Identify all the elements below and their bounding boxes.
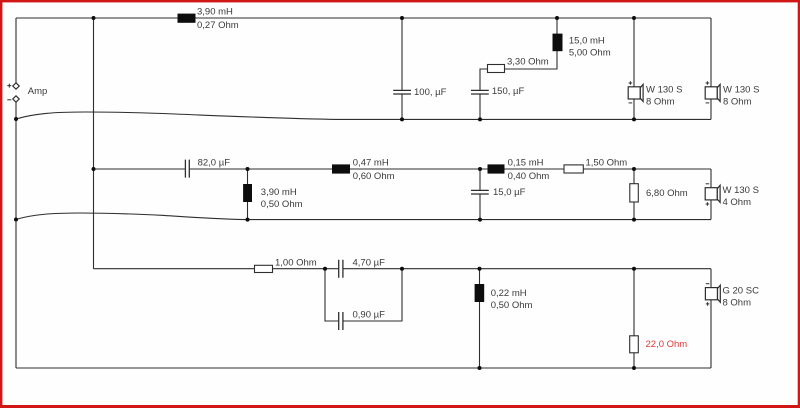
node: bottom feed x=479.5 xyxy=(478,267,482,271)
svg-text:6,80 Ohm: 6,80 Ohm xyxy=(646,188,688,199)
svg-text:8 Ohm: 8 Ohm xyxy=(723,298,752,309)
wire: bottom section feed y=268.7 (gap at 4,70uF plates) xyxy=(94,268,712,270)
node: bottom rail x=634 xyxy=(632,366,636,370)
wire: - lead from Amp down to lower junction xyxy=(15,102,17,119)
svg-text:1,50 Ohm: 1,50 Ohm xyxy=(586,158,628,169)
svg-text:0,22 mH: 0,22 mH xyxy=(491,288,527,299)
wire: speaker4 branch x=711 xyxy=(710,269,712,368)
speaker SP2 W130S 8 Ohm xyxy=(705,81,720,103)
capacitor C4 15,0uF (shunt) xyxy=(471,190,489,194)
svg-text:4,70 µF: 4,70 µF xyxy=(353,258,386,269)
wire: squiggle return rail of mid section y~219.5 xyxy=(16,213,711,220)
svg-text:150, µF: 150, µF xyxy=(492,86,525,97)
node: bottom feed x=634 xyxy=(632,267,636,271)
wire: + lead from Amp up to top-left corner xyxy=(15,18,17,83)
node: mid rail x=634 xyxy=(632,167,636,171)
svg-text:0,50 Ohm: 0,50 Ohm xyxy=(491,300,533,311)
speaker SP4 G20SC 8 Ohm (reversed) xyxy=(705,284,720,306)
node: left vertical mid junction xyxy=(14,218,18,222)
svg-text:Amp: Amp xyxy=(28,86,48,97)
node: bottom feed x=325 xyxy=(323,267,327,271)
svg-text:W 130 S: W 130 S xyxy=(723,84,759,95)
node: return rail x=402 xyxy=(400,117,404,121)
wire: top rail y=18 xyxy=(16,17,711,19)
capacitor C5 4,70uF (series) xyxy=(339,260,343,278)
svg-text:0,50 Ohm: 0,50 Ohm xyxy=(261,199,303,210)
svg-text:5,00 Ohm: 5,00 Ohm xyxy=(569,47,611,58)
inductor L1 3,90mH top xyxy=(178,14,196,23)
inductor L6 0,22mH (vertical) xyxy=(475,284,485,302)
svg-text:1,00 Ohm: 1,00 Ohm xyxy=(275,258,317,269)
node: mid rail x=93.5 xyxy=(92,167,96,171)
svg-text:8 Ohm: 8 Ohm xyxy=(723,96,752,107)
node: bottom rail x=479.5 xyxy=(478,366,482,370)
wire: 6,80 Ohm shunt branch x=634 xyxy=(633,169,635,220)
svg-text:0,40 Ohm: 0,40 Ohm xyxy=(508,171,550,182)
wire: left vertical x=16 down to bottom rail xyxy=(15,119,17,368)
resistor R4 1,00 Ohm xyxy=(255,265,273,272)
node: return rail x=480 xyxy=(478,117,482,121)
resistor R3 6,80 Ohm (vertical) xyxy=(630,184,639,202)
node: mid rail x=247.5 xyxy=(246,167,250,171)
svg-text:0,90 µF: 0,90 µF xyxy=(353,310,386,321)
inductor L4 0,47mH xyxy=(332,164,350,173)
node: top rail x=634 xyxy=(632,16,636,20)
svg-text:15,0 µF: 15,0 µF xyxy=(493,187,526,198)
node: mid return x=480 xyxy=(478,218,482,222)
wire: bottom rail y=368 xyxy=(16,367,711,369)
wire: parallel caps lower loop xyxy=(325,269,402,321)
svg-text:3,90 mH: 3,90 mH xyxy=(197,6,233,17)
amp minus sign xyxy=(7,99,11,101)
wire: speaker2 branch x=711 xyxy=(710,18,712,119)
svg-text:W 130 S: W 130 S xyxy=(646,84,682,95)
svg-text:W 130 S: W 130 S xyxy=(723,185,759,196)
node: mid rail x=480 xyxy=(478,167,482,171)
node: top rail x=402 xyxy=(400,16,404,20)
capacitor C2 150uF (shunt) xyxy=(471,90,489,94)
wire: mid rail y=169 (gap at 82uF plates) xyxy=(94,168,712,170)
svg-text:4 Ohm: 4 Ohm xyxy=(723,197,752,208)
inductor L5 0,15mH xyxy=(488,164,505,173)
svg-text:22,0 Ohm: 22,0 Ohm xyxy=(646,339,688,350)
svg-text:0,60 Ohm: 0,60 Ohm xyxy=(353,171,395,182)
wire: 15uF shunt branch x=480 xyxy=(479,169,481,220)
wire: vertical bus x=93.5 from top rail to bottom feed xyxy=(93,18,95,269)
node: amp minus junction xyxy=(14,117,18,121)
wire: 100uF branch verticals xyxy=(401,18,403,119)
node: bottom feed x=402 xyxy=(400,267,404,271)
speaker SP1 W130S 8 Ohm xyxy=(628,81,643,103)
node: top rail x=557 xyxy=(555,16,559,20)
wire: 3,90mH mid shunt branch x=247.5 xyxy=(247,169,249,220)
inductor L3 3,90mH mid (vertical) xyxy=(243,184,252,202)
wire: speaker1 branch x=634 xyxy=(633,18,635,119)
node: top rail x=93.5 xyxy=(92,16,96,20)
svg-text:G 20 SC: G 20 SC xyxy=(723,286,760,297)
resistor R1 3,30 Ohm xyxy=(488,65,505,73)
wire: 150uF / 3,30 Ohm / 15mH link xyxy=(480,18,557,119)
svg-text:8 Ohm: 8 Ohm xyxy=(646,96,675,107)
svg-text:0,27 Ohm: 0,27 Ohm xyxy=(197,20,239,31)
svg-text:0,47 mH: 0,47 mH xyxy=(353,158,389,169)
svg-text:3,30 Ohm: 3,30 Ohm xyxy=(507,57,549,68)
capacitor C3 82,0uF (series) xyxy=(185,160,189,178)
resistor R5 22,0 Ohm (vertical) xyxy=(630,336,639,353)
wire: 22 Ohm shunt branch x=634 xyxy=(633,269,635,368)
svg-text:3,90 mH: 3,90 mH xyxy=(261,187,297,198)
amp terminal + (diamond) xyxy=(13,83,19,89)
capacitor C6 0,90uF (series) xyxy=(339,312,343,330)
wire: 0,22mH shunt branch x=479.5 xyxy=(479,269,481,368)
svg-text:0,15 mH: 0,15 mH xyxy=(508,158,544,169)
inductor L2 15,0mH (vertical) xyxy=(553,34,563,52)
wire: mid right corner into speaker3 xyxy=(710,169,712,220)
node: mid return x=634 xyxy=(632,218,636,222)
wire: squiggle return rail of top section y~119.5 xyxy=(16,112,711,119)
svg-text:82,0 µF: 82,0 µF xyxy=(198,158,231,169)
svg-text:15,0 mH: 15,0 mH xyxy=(569,35,605,46)
amp terminal - (diamond) xyxy=(13,96,19,102)
speaker SP3 W130S 4 Ohm (reversed) xyxy=(705,184,720,206)
node: return rail x=634 xyxy=(632,117,636,121)
node: mid return x=247.5 xyxy=(246,218,250,222)
capacitor C1 100uF (shunt) xyxy=(393,90,411,94)
amp plus sign xyxy=(7,84,11,88)
svg-text:100, µF: 100, µF xyxy=(414,87,447,98)
resistor R2 1,50 Ohm xyxy=(564,165,583,173)
